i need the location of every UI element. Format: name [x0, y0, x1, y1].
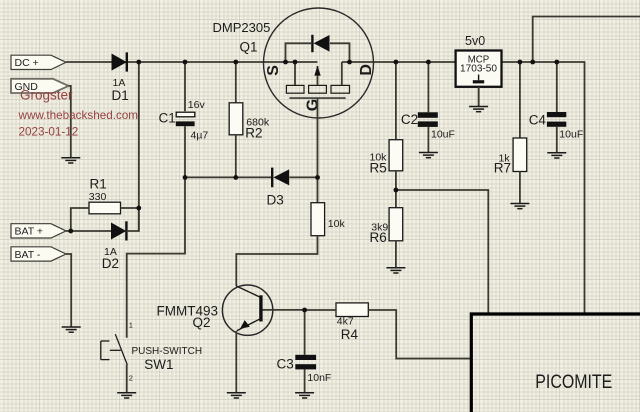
svg-text:Q2: Q2: [193, 315, 211, 330]
svg-text:10k: 10k: [328, 218, 346, 230]
wire Q2 base to R4: [263, 309, 305, 311]
resistor R5: [389, 140, 403, 171]
svg-text:G: G: [305, 99, 322, 111]
svg-text:D2: D2: [102, 256, 119, 271]
svg-text:www.thebackshed.com: www.thebackshed.com: [18, 109, 139, 122]
ground (SW1): [117, 393, 136, 398]
resistor R2: [229, 103, 243, 135]
junction dot R5/R6: [394, 188, 399, 193]
junction dot top-right branch: [530, 60, 535, 65]
wire R2 top lead: [235, 62, 237, 103]
wire C1 top lead: [184, 62, 186, 111]
svg-text:C3: C3: [277, 356, 294, 371]
junction dot R5 tap: [394, 60, 399, 65]
ground (C3): [295, 393, 314, 398]
junction dot Q1 source loop: [283, 60, 288, 65]
svg-text:R5: R5: [370, 161, 387, 176]
svg-text:R2: R2: [245, 126, 262, 141]
svg-text:SW1: SW1: [144, 357, 173, 372]
wire GND flag to ground: [69, 86, 71, 158]
Q1 source plate: [286, 85, 304, 93]
wire R2 bottom lead: [235, 135, 237, 178]
junction dot base/C3: [302, 308, 307, 313]
resistor 10k (gate pulldown): [311, 203, 325, 236]
junction dot R2 top: [233, 60, 238, 65]
svg-text:PUSH-SWITCH: PUSH-SWITCH: [132, 346, 203, 357]
junction dot R1/D1 node: [136, 206, 141, 211]
wire BAT+ to D2: [66, 230, 112, 232]
wire BAT- to ground: [66, 254, 71, 327]
wire R7 top lead: [519, 62, 521, 138]
ground (regulator): [469, 107, 488, 112]
svg-text:R6: R6: [370, 230, 387, 245]
ground (R7): [510, 204, 529, 209]
junction dot Q1 source pin: [293, 60, 298, 65]
regulator U1 MCP1703-50: [456, 51, 502, 87]
ground (GND input): [61, 158, 80, 163]
wire C4 top lead: [556, 62, 558, 112]
wire C2 bottom to ground: [427, 127, 429, 152]
Q1 drain riser: [341, 62, 343, 85]
svg-text:Q1: Q1: [240, 40, 258, 55]
wire R7 bottom to ground: [519, 172, 521, 204]
svg-text:5v0: 5v0: [465, 34, 485, 48]
junction dot gate/D3: [315, 175, 320, 180]
resistor R4: [336, 303, 368, 317]
resistor R1: [89, 202, 121, 214]
wire R1 left lead: [71, 208, 89, 231]
svg-text:Grogster: Grogster: [20, 87, 73, 102]
svg-text:2023-01-12: 2023-01-12: [19, 126, 79, 139]
wire rail D-side to regulator: [342, 61, 456, 63]
Q1 drain plate: [331, 85, 350, 93]
wire top-right branch from 5V rail: [533, 17, 640, 63]
connector DC+: [11, 55, 66, 69]
Q1 bulk plate: [309, 85, 327, 93]
Q1 body diode loop wire: [286, 43, 312, 62]
wire switch node: D3 rail down, across to SW1: [127, 177, 185, 337]
wire R5 bottom to junction: [395, 171, 397, 208]
connector BAT+: [11, 224, 66, 238]
junction dot D1 cathode node: [136, 60, 141, 65]
svg-text:D3: D3: [267, 192, 284, 207]
wire R5/R6 node to Picomite: [396, 190, 488, 314]
svg-text:S: S: [265, 65, 282, 76]
resistor R7: [513, 138, 527, 172]
wire R5 top lead: [395, 62, 397, 140]
Q1 gate bar: [289, 97, 345, 99]
junction dot R7 tap: [518, 60, 523, 65]
capacitor C2: [418, 112, 438, 127]
block PICOMITE: [471, 314, 640, 412]
svg-text:PICOMITE: PICOMITE: [535, 372, 612, 393]
ground (R6): [386, 268, 405, 273]
wire C4 bottom to ground: [556, 127, 558, 153]
resistor R6: [389, 208, 403, 241]
wire R1 right lead: [121, 207, 139, 209]
wire R6 bottom to ground: [395, 241, 397, 268]
svg-text:1703-50: 1703-50: [460, 63, 497, 74]
wire from D1 node down to battery diode node: [138, 62, 140, 231]
svg-text:D: D: [358, 64, 375, 76]
connector BAT-: [11, 247, 66, 261]
svg-text:4µ7: 4µ7: [191, 130, 209, 142]
ground (C4): [547, 153, 566, 158]
junction dot BAT+/R1: [68, 229, 73, 234]
wire regulator ground lead: [478, 87, 480, 107]
svg-text:DMP2305: DMP2305: [213, 20, 271, 35]
connector GND: [11, 79, 69, 93]
svg-text:C1: C1: [159, 111, 176, 126]
svg-text:2: 2: [129, 373, 133, 382]
svg-text:BAT -: BAT -: [15, 249, 41, 261]
wire main +V rail y=62: [66, 61, 318, 63]
transistor Q2 circle: [222, 285, 272, 335]
wire Q2 emitter to ground: [235, 331, 237, 393]
switch SW1: [101, 334, 128, 365]
wire 10k bottom to Q2 collector: [236, 236, 317, 286]
Q1 source riser: [294, 62, 296, 85]
ground (Q2 emitter): [227, 393, 246, 398]
wire C2 top lead: [427, 62, 429, 112]
capacitor C1: [176, 112, 195, 126]
transistor Q1 P-MOSFET circle: [264, 8, 374, 118]
junction dot Q1 drain pin: [347, 60, 352, 65]
diode D2: [112, 221, 127, 240]
svg-text:DC +: DC +: [15, 57, 39, 69]
wire SW1 to ground: [126, 365, 128, 393]
junction dot C1 tap: [183, 60, 188, 65]
svg-text:R7: R7: [494, 161, 511, 176]
capacitor C4: [547, 112, 566, 127]
Q2 emitter diagonal with arrow: [237, 319, 260, 331]
junction dot R2/D3: [233, 175, 238, 180]
ground (BAT-): [62, 327, 81, 332]
svg-text:C4: C4: [529, 112, 547, 127]
junction dot C1/D3: [183, 175, 188, 180]
ground (C2): [419, 153, 438, 158]
Q1 bulk riser with arrow: [317, 66, 319, 85]
svg-text:C2: C2: [401, 112, 418, 127]
wire D3 rail y=177: [185, 176, 271, 178]
svg-text:330: 330: [89, 191, 107, 203]
svg-text:R4: R4: [341, 327, 359, 342]
junction dot C2 tap: [426, 60, 431, 65]
wire C3 top lead: [304, 310, 306, 355]
svg-text:10uF: 10uF: [431, 128, 455, 140]
Q2 base bar: [259, 295, 262, 321]
wire C3 bottom to ground: [304, 369, 306, 392]
wire gate node down to 10k: [317, 177, 319, 202]
wire base node to R4: [305, 309, 336, 311]
svg-text:BAT +: BAT +: [15, 226, 44, 238]
wire D2 cathode up to R1 node: [126, 208, 138, 231]
capacitor C3: [295, 355, 316, 370]
diode D1: [112, 52, 127, 71]
svg-text:16v: 16v: [188, 99, 206, 111]
svg-text:10nF: 10nF: [307, 372, 331, 384]
wire R4 to Picomite: [368, 310, 470, 359]
svg-text:D1: D1: [112, 88, 129, 103]
svg-text:10uF: 10uF: [559, 129, 583, 141]
diode D3: [272, 168, 289, 188]
Q2 collector diagonal: [236, 286, 260, 297]
svg-text:R1: R1: [90, 177, 107, 192]
Q1 body diode: [312, 35, 329, 52]
wire C1 bottom lead to D3 rail: [184, 126, 186, 177]
junction dot C4 tap: [554, 60, 559, 65]
wire regulator output rail to right bend down to Picomite: [502, 62, 585, 314]
wire Q1 gate down to D3 node: [317, 98, 319, 177]
svg-text:1: 1: [129, 321, 133, 330]
